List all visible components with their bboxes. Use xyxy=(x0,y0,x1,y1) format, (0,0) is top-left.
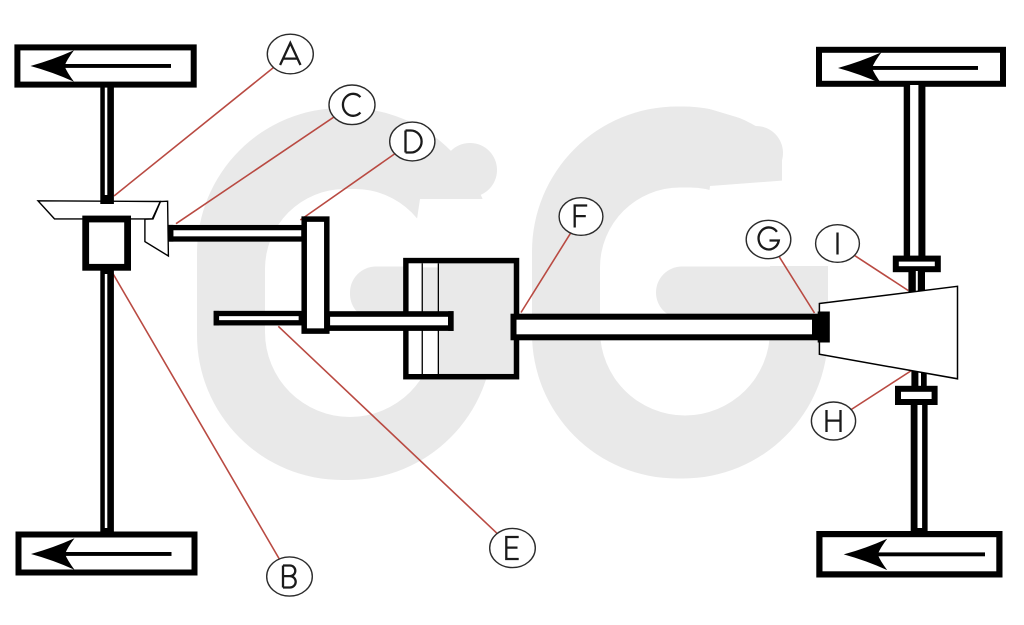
leader line B xyxy=(112,273,289,577)
propeller shaft end cap xyxy=(818,312,830,343)
leader line E xyxy=(278,326,512,548)
leader line A xyxy=(114,54,290,196)
leader line I xyxy=(837,244,908,291)
rear-left wheel arrow xyxy=(31,538,75,569)
label D circle xyxy=(390,122,435,161)
long propeller shaft xyxy=(514,317,816,338)
front-left wheel xyxy=(17,47,193,84)
lower coupling flange xyxy=(898,389,935,402)
lower-left shaft E xyxy=(216,314,301,323)
engine block xyxy=(406,261,517,377)
label I circle xyxy=(816,225,860,263)
rear-right wheel xyxy=(819,534,999,574)
rear differential trapezoid xyxy=(819,286,957,379)
engine strip line 2 xyxy=(438,263,439,374)
label B circle xyxy=(267,557,313,596)
label G circle xyxy=(746,220,791,258)
front-right wheel arrow xyxy=(838,52,882,83)
transfer shaft C (front output) xyxy=(171,228,304,239)
front differential housing xyxy=(86,219,128,267)
label H circle xyxy=(811,402,855,440)
front-right wheel xyxy=(819,50,1003,84)
upper stem into rear diff xyxy=(908,271,925,295)
label A circle xyxy=(267,34,313,74)
engine white strip 1 xyxy=(409,263,422,374)
engine strip line 1 xyxy=(422,263,423,374)
rear-right wheel arrow xyxy=(844,539,888,570)
watermark letter G right xyxy=(532,95,870,479)
leader line H xyxy=(834,371,912,422)
rear-left wheel xyxy=(19,535,195,573)
propeller shaft end cap over trapezoid xyxy=(818,312,830,343)
rear axle shaft upper xyxy=(904,85,926,257)
engine white strip 2 top sliver xyxy=(423,263,438,267)
lower stem out of rear diff xyxy=(911,366,926,387)
leader line D xyxy=(300,142,412,221)
leader line G xyxy=(769,240,815,313)
engine white strip 2 lower xyxy=(423,330,438,374)
label F circle xyxy=(559,198,603,236)
leader line F xyxy=(521,217,581,313)
front axle shaft upper xyxy=(100,85,114,204)
front axle shaft lower xyxy=(100,268,114,534)
label E circle xyxy=(490,528,536,567)
watermark letter G left xyxy=(197,95,560,480)
front pinion cone xyxy=(145,201,169,256)
front differential ring-gear plate xyxy=(38,201,160,219)
lower-right shaft into engine xyxy=(327,314,451,328)
vertical transfer case D xyxy=(304,219,327,331)
upper coupling flange xyxy=(896,259,938,270)
rear axle lower xyxy=(911,403,928,533)
leader line C xyxy=(176,105,352,224)
front-left wheel arrow xyxy=(31,50,75,81)
label C circle xyxy=(329,85,375,125)
